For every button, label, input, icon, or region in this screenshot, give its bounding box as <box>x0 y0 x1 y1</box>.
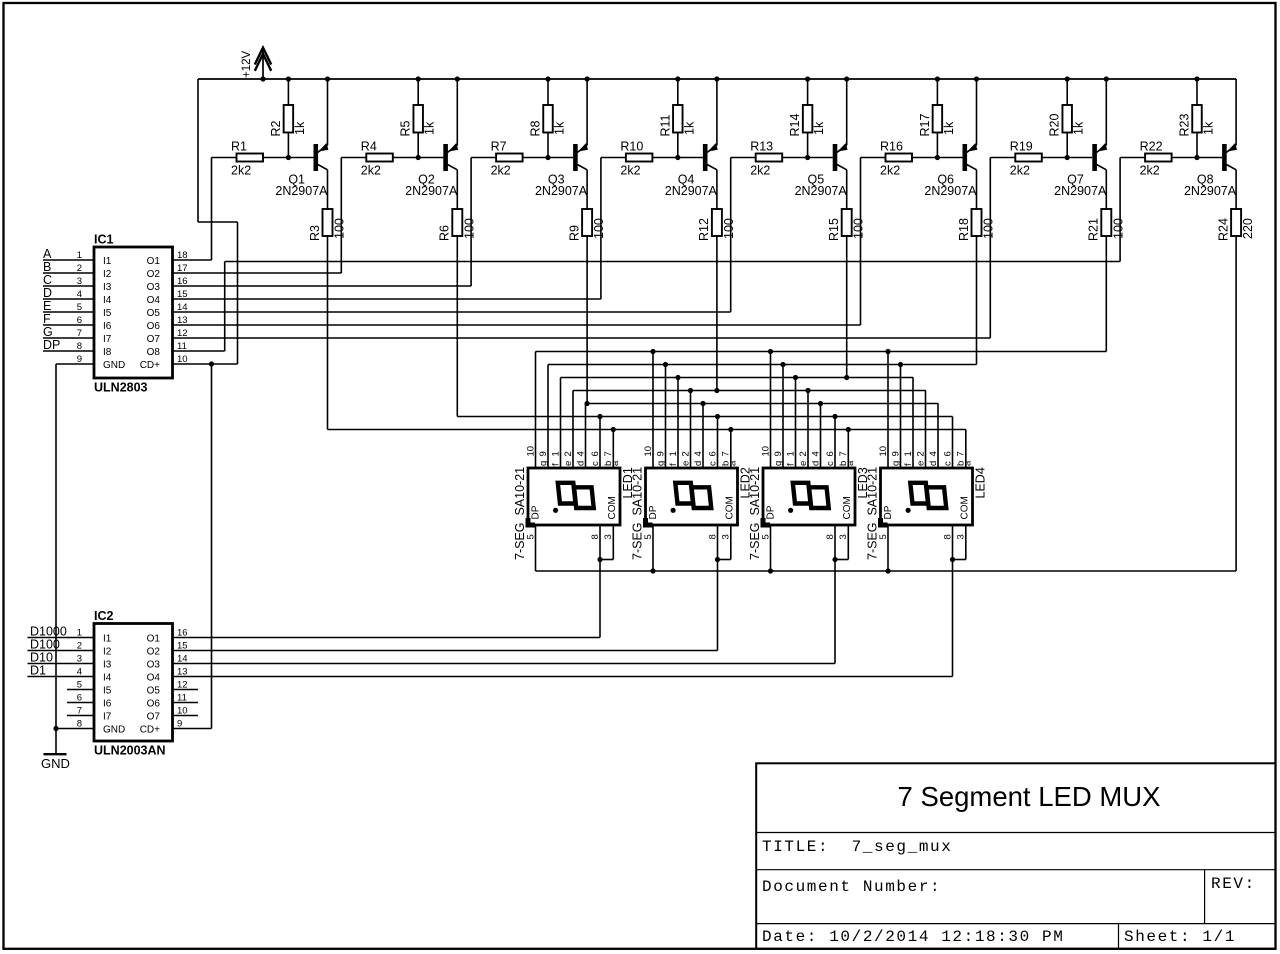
resistor R17 (1k pull-up) <box>918 105 956 137</box>
svg-text:ULN2803: ULN2803 <box>94 381 148 395</box>
svg-text:R21: R21 <box>1087 218 1101 241</box>
junction: base node R13/R14/Q5 <box>805 155 810 160</box>
svg-text:O1: O1 <box>147 256 161 267</box>
svg-text:R7: R7 <box>491 140 507 154</box>
svg-text:f: f <box>903 463 914 466</box>
svg-text:R17: R17 <box>918 114 932 137</box>
junction: rail / R8 <box>545 76 550 81</box>
svg-text:e: e <box>563 461 574 466</box>
wire: IC1 O7 net to R19 (base drive) <box>173 158 1016 339</box>
wire: rail to R5 <box>417 79 419 105</box>
svg-text:9: 9 <box>655 451 666 456</box>
svg-text:O4: O4 <box>147 673 161 684</box>
svg-text:14: 14 <box>177 654 188 665</box>
svg-text:O2: O2 <box>147 269 161 280</box>
svg-text:100: 100 <box>333 218 347 239</box>
svg-text:8: 8 <box>590 534 601 539</box>
svg-text:R5: R5 <box>399 120 413 136</box>
svg-text:2k2: 2k2 <box>491 164 511 178</box>
svg-text:R13: R13 <box>750 140 773 154</box>
svg-text:d: d <box>810 461 821 466</box>
svg-text:a: a <box>727 460 738 466</box>
svg-text:F: F <box>43 312 51 326</box>
wire: LED2 COM pins join <box>715 525 731 562</box>
svg-text:2k2: 2k2 <box>1140 164 1160 178</box>
svg-text:220: 220 <box>1241 218 1255 239</box>
node C (segment input) <box>43 273 94 287</box>
resistor R1 (2k2) <box>231 140 263 178</box>
svg-text:I7: I7 <box>103 712 112 723</box>
svg-text:I1: I1 <box>103 256 112 267</box>
svg-text:7 Segment LED MUX: 7 Segment LED MUX <box>898 781 1161 812</box>
wire: R17 to base node <box>936 133 938 158</box>
svg-text:7: 7 <box>603 451 614 456</box>
svg-text:Date: 10/2/2014 12:18:30 PM: Date: 10/2/2014 12:18:30 PM <box>762 928 1064 946</box>
svg-text:COM: COM <box>842 496 853 519</box>
svg-text:I4: I4 <box>103 673 112 684</box>
wire: base node to Q2 <box>393 157 444 159</box>
svg-text:2k2: 2k2 <box>750 164 770 178</box>
wire: R14 to base node <box>807 133 809 158</box>
junction: rail / R5 <box>416 76 421 81</box>
wire: rail to R23 <box>1196 79 1198 105</box>
svg-text:13: 13 <box>177 315 188 326</box>
wire: base node to Q6 <box>912 157 963 159</box>
svg-text:R23: R23 <box>1178 114 1192 137</box>
junction: rail / R20 <box>1065 76 1070 81</box>
resistor R2 (1k pull-up) <box>269 105 307 137</box>
svg-text:d: d <box>693 461 704 466</box>
wire: LED4 COM to IC2 O4 <box>173 560 953 677</box>
node DP (segment input) <box>43 338 94 352</box>
svg-text:16: 16 <box>177 276 188 287</box>
wire: rail to R2 <box>287 79 289 105</box>
resistor R18 (100) <box>957 172 996 242</box>
node E (segment input) <box>43 299 94 313</box>
svg-text:100: 100 <box>592 218 606 239</box>
resistor R24 (220) <box>1216 172 1255 242</box>
svg-text:100: 100 <box>462 218 476 239</box>
svg-text:O5: O5 <box>147 308 161 319</box>
svg-text:8: 8 <box>825 534 836 539</box>
svg-text:7-SEG SA10-21: 7-SEG SA10-21 <box>748 467 762 560</box>
wire: segment bus G <box>536 349 1107 354</box>
node D100 (digit select input) <box>28 638 95 652</box>
svg-text:8: 8 <box>707 534 718 539</box>
svg-text:100: 100 <box>982 218 996 239</box>
junction: base node R4/R5/Q2 <box>416 155 421 160</box>
svg-text:GND: GND <box>103 725 125 736</box>
svg-text:A: A <box>43 247 52 261</box>
resistor R19 (2k2) <box>1010 140 1042 178</box>
wire: IC2 unconnected input stubs pins 5-7 <box>67 690 94 716</box>
wire: Q4 collector to segment bus D <box>716 236 718 391</box>
svg-text:g: g <box>773 461 784 466</box>
svg-text:1k: 1k <box>682 121 696 135</box>
resistor R12 (100) <box>697 172 736 242</box>
wire: LED3 COM to IC2 O3 <box>173 560 836 664</box>
svg-text:10: 10 <box>878 446 889 457</box>
svg-text:9: 9 <box>773 451 784 456</box>
svg-text:6: 6 <box>942 451 953 456</box>
svg-text:CD+: CD+ <box>140 725 160 736</box>
svg-text:2N2907A: 2N2907A <box>665 184 718 198</box>
svg-text:E: E <box>43 299 51 313</box>
svg-text:e: e <box>915 461 926 466</box>
transistor Q1 2N2907A (PNP) <box>275 79 328 198</box>
wire: R11 to base node <box>677 133 679 158</box>
transistor Q8 2N2907A (PNP) <box>1184 79 1237 198</box>
junction: rail / Q1 emitter <box>325 76 330 81</box>
svg-text:d: d <box>928 461 939 466</box>
wire: segment bus B <box>457 414 952 419</box>
wire: IC1 O1 net to R1 (base drive) <box>173 158 237 261</box>
svg-text:I3: I3 <box>103 282 112 293</box>
svg-text:17: 17 <box>177 263 188 274</box>
wire: rail to R11 <box>677 79 679 105</box>
svg-text:O7: O7 <box>147 712 161 723</box>
svg-text:9: 9 <box>177 719 182 730</box>
svg-text:1: 1 <box>903 451 914 456</box>
resistor R15 (100) <box>827 172 866 242</box>
junction: rail / R23 <box>1194 76 1199 81</box>
svg-text:7: 7 <box>838 451 849 456</box>
svg-text:R16: R16 <box>880 140 903 154</box>
svg-text:Sheet: 1/1: Sheet: 1/1 <box>1124 928 1236 946</box>
svg-text:R3: R3 <box>308 225 322 241</box>
junction: base node R7/R8/Q3 <box>545 155 550 160</box>
svg-text:3: 3 <box>956 534 967 539</box>
svg-text:c: c <box>707 461 718 466</box>
IC IC2 ULN2003AN (digit driver) <box>77 609 188 758</box>
junction: base node R16/R17/Q6 <box>935 155 940 160</box>
svg-text:1k: 1k <box>1072 121 1086 135</box>
svg-text:TITLE: 7_seg_mux: TITLE: 7_seg_mux <box>762 838 952 856</box>
svg-text:C: C <box>43 273 52 287</box>
junction: rail / +12V symbol <box>260 76 265 81</box>
svg-text:7: 7 <box>956 451 967 456</box>
svg-text:1k: 1k <box>812 121 826 135</box>
svg-text:e: e <box>798 461 809 466</box>
wire: Q5 collector to segment bus E <box>846 236 848 378</box>
svg-text:1: 1 <box>785 451 796 456</box>
svg-text:R11: R11 <box>658 114 672 136</box>
node B (segment input) <box>43 260 94 274</box>
svg-text:I1: I1 <box>103 634 112 645</box>
svg-text:15: 15 <box>177 641 188 652</box>
transistor Q6 2N2907A (PNP) <box>924 79 977 198</box>
svg-text:a: a <box>610 460 621 466</box>
resistor R23 (1k pull-up) <box>1178 105 1216 137</box>
svg-text:I7: I7 <box>103 334 112 345</box>
svg-text:I5: I5 <box>103 686 112 697</box>
svg-text:7: 7 <box>721 451 732 456</box>
wire: LED2 DP pin stub <box>652 525 654 571</box>
junction: base node R19/R20/Q7 <box>1065 155 1070 160</box>
resistor R8 (1k pull-up) <box>529 105 567 137</box>
wire: segment bus F <box>548 362 977 367</box>
svg-text:10: 10 <box>525 446 536 457</box>
svg-text:7-SEG SA10-21: 7-SEG SA10-21 <box>866 467 880 560</box>
wire: segment bus A <box>328 427 966 432</box>
svg-text:4: 4 <box>810 451 821 456</box>
resistor R4 (2k2) <box>361 140 393 178</box>
junction: base node R1/R2/Q1 <box>286 155 291 160</box>
svg-text:GND: GND <box>41 756 70 771</box>
svg-text:7-SEG SA10-21: 7-SEG SA10-21 <box>513 467 527 560</box>
svg-text:f: f <box>785 463 796 466</box>
svg-text:DP: DP <box>648 505 659 519</box>
svg-text:GND: GND <box>103 360 125 371</box>
svg-text:c: c <box>942 461 953 466</box>
svg-text:R1: R1 <box>231 140 247 154</box>
svg-text:g: g <box>890 461 901 466</box>
junction: rail / R14 <box>805 76 810 81</box>
svg-text:100: 100 <box>852 218 866 239</box>
svg-text:I2: I2 <box>103 647 112 658</box>
7-segment display LED3 (SA10-21) <box>748 446 870 560</box>
svg-text:9: 9 <box>890 451 901 456</box>
svg-text:10: 10 <box>760 446 771 457</box>
svg-text:2: 2 <box>563 451 574 456</box>
transistor Q4 2N2907A (PNP) <box>665 79 718 198</box>
svg-text:B: B <box>43 260 51 274</box>
svg-text:R10: R10 <box>620 140 643 154</box>
wire: +12V drop to IC2 CD+ <box>173 364 212 729</box>
svg-text:12: 12 <box>177 328 188 339</box>
svg-text:1: 1 <box>550 451 561 456</box>
wire: Q3 collector to segment bus C <box>586 236 588 404</box>
svg-text:2: 2 <box>915 451 926 456</box>
svg-text:I6: I6 <box>103 321 112 332</box>
svg-text:2N2907A: 2N2907A <box>1184 184 1237 198</box>
svg-text:2N2907A: 2N2907A <box>924 184 977 198</box>
svg-text:COM: COM <box>607 496 618 519</box>
wire: base node to Q5 <box>782 157 833 159</box>
wire: base node to Q8 <box>1172 157 1223 159</box>
wire: base node to Q7 <box>1042 157 1093 159</box>
junction: base node R10/R11/Q4 <box>675 155 680 160</box>
svg-text:+12V: +12V <box>241 50 253 78</box>
junction: rail / R2 <box>286 76 291 81</box>
wire: R8 to base node <box>547 133 549 158</box>
wire: rail to R8 <box>547 79 549 105</box>
junction: rail / Q7 emitter <box>1104 76 1109 81</box>
wire: rail to R20 <box>1066 79 1068 105</box>
junction: rail / Q5 emitter <box>844 76 849 81</box>
svg-text:O8: O8 <box>147 347 161 358</box>
svg-text:2N2907A: 2N2907A <box>535 184 588 198</box>
wire: IC1 O5 net to R13 (base drive) <box>173 158 756 313</box>
svg-text:f: f <box>550 463 561 466</box>
svg-text:4: 4 <box>928 451 939 456</box>
svg-text:O3: O3 <box>147 660 161 671</box>
junction: DP bus taps <box>650 568 890 573</box>
svg-text:a: a <box>962 460 973 466</box>
resistor R7 (2k2) <box>491 140 523 178</box>
transistor Q2 2N2907A (PNP) <box>405 79 458 198</box>
svg-text:D100: D100 <box>30 638 60 652</box>
svg-text:11: 11 <box>177 341 187 352</box>
svg-text:I4: I4 <box>103 295 112 306</box>
wire: Q6 collector to segment bus F <box>976 236 978 365</box>
wire: LED1 segment pin stubs <box>536 352 614 469</box>
junction: rail / Q4 emitter <box>714 76 719 81</box>
resistor R20 (1k pull-up) <box>1048 105 1086 137</box>
wire: Q7 collector to segment bus G <box>1105 236 1107 352</box>
svg-text:1k: 1k <box>553 121 567 135</box>
wire: base node to Q1 <box>263 157 314 159</box>
wire: R2 to base node <box>287 133 289 158</box>
junction: rail / R17 <box>935 76 940 81</box>
svg-text:4: 4 <box>575 451 586 456</box>
resistor R6 (100) <box>438 172 477 242</box>
svg-text:8: 8 <box>942 534 953 539</box>
svg-text:3: 3 <box>721 534 732 539</box>
svg-text:DP: DP <box>43 338 60 352</box>
transistor Q3 2N2907A (PNP) <box>535 79 588 198</box>
wire: IC1 O2 net to R4 (base drive) <box>173 158 367 274</box>
svg-text:18: 18 <box>177 250 188 261</box>
wire: LED3 COM pins join <box>832 525 848 562</box>
svg-text:COM: COM <box>960 496 971 519</box>
junction: rail / Q6 emitter <box>974 76 979 81</box>
svg-text:3: 3 <box>603 534 614 539</box>
svg-text:1k: 1k <box>1202 121 1216 135</box>
wire: LED1 COM pins join <box>597 525 613 562</box>
svg-text:I6: I6 <box>103 699 112 710</box>
wire: IC1 O4 net to R10 (base drive) <box>173 158 626 300</box>
junction: rail / R11 <box>675 76 680 81</box>
svg-text:100: 100 <box>722 218 736 239</box>
svg-text:ULN2003AN: ULN2003AN <box>94 744 166 758</box>
wire: IC2 pin 8 GND <box>56 728 94 730</box>
svg-text:O1: O1 <box>147 634 161 645</box>
resistor R11 (1k pull-up) <box>658 105 696 137</box>
svg-text:16: 16 <box>177 628 188 639</box>
wire: base node to Q4 <box>652 157 703 159</box>
svg-text:6: 6 <box>590 451 601 456</box>
svg-text:14: 14 <box>177 302 188 313</box>
svg-text:R22: R22 <box>1140 140 1163 154</box>
resistor R5 (1k pull-up) <box>399 105 437 137</box>
svg-text:D1000: D1000 <box>30 625 67 639</box>
svg-text:1k: 1k <box>293 121 307 135</box>
transistor Q5 2N2907A (PNP) <box>795 79 848 198</box>
IC IC1 ULN2803 (octal darlington) <box>77 233 188 395</box>
svg-text:2: 2 <box>680 451 691 456</box>
svg-text:2: 2 <box>798 451 809 456</box>
svg-text:d: d <box>575 461 586 466</box>
power rail +12V wire <box>198 78 1236 80</box>
svg-text:R4: R4 <box>361 140 377 154</box>
svg-text:10: 10 <box>643 446 654 457</box>
svg-text:O3: O3 <box>147 282 161 293</box>
transistor Q7 2N2907A (PNP) <box>1054 79 1107 198</box>
junction: CD+ / +12V drop to IC2 <box>209 361 214 366</box>
wire: IC1 O3 net to R7 (base drive) <box>173 158 497 287</box>
svg-text:I8: I8 <box>103 347 112 358</box>
svg-text:R9: R9 <box>567 225 581 241</box>
svg-text:I3: I3 <box>103 660 112 671</box>
7-segment display LED1 (SA10-21) <box>513 446 635 560</box>
wire: LED4 COM pins join <box>950 525 966 562</box>
wire: R20 to base node <box>1066 133 1068 158</box>
svg-text:2N2907A: 2N2907A <box>275 184 328 198</box>
wire: LED2 COM to IC2 O2 <box>173 560 718 651</box>
wire: IC1 CD+ row <box>173 363 238 365</box>
svg-text:f: f <box>668 463 679 466</box>
svg-text:IC2: IC2 <box>94 609 114 623</box>
wire: LED3 DP pin stub <box>770 525 772 571</box>
svg-text:g: g <box>655 461 666 466</box>
svg-text:I5: I5 <box>103 308 112 319</box>
svg-text:a: a <box>845 460 856 466</box>
svg-text:R19: R19 <box>1010 140 1033 154</box>
wire: rail to R17 <box>936 79 938 105</box>
junction: base node R22/R23/Q8 <box>1194 155 1199 160</box>
svg-text:1: 1 <box>668 451 679 456</box>
wire: LED4 DP pin stub <box>887 525 889 571</box>
svg-text:D: D <box>43 286 52 300</box>
svg-text:R8: R8 <box>529 120 543 136</box>
svg-text:2k2: 2k2 <box>1010 164 1030 178</box>
svg-text:2N2907A: 2N2907A <box>795 184 848 198</box>
svg-text:2k2: 2k2 <box>361 164 381 178</box>
svg-text:O7: O7 <box>147 334 161 345</box>
resistor R22 (2k2) <box>1140 140 1172 178</box>
wire: R23 to base node <box>1196 133 1198 158</box>
svg-text:DP: DP <box>883 505 894 519</box>
wire: Q8 collector to DP bus <box>536 236 1237 571</box>
node D10 (digit select input) <box>28 651 95 665</box>
svg-text:O4: O4 <box>147 295 161 306</box>
wire: IC1 pin 9 GND to ground <box>56 364 94 754</box>
7-segment display LED2 (SA10-21) <box>631 446 753 560</box>
svg-text:DP: DP <box>531 505 542 519</box>
svg-text:R20: R20 <box>1048 114 1062 137</box>
svg-text:g: g <box>538 461 549 466</box>
wire: IC1 O8 net to R22 (base drive) <box>173 158 1146 352</box>
resistor R21 (100) <box>1087 172 1126 242</box>
7-segment display LED4 (SA10-21) <box>866 446 988 560</box>
svg-text:R24: R24 <box>1216 218 1230 241</box>
svg-text:I2: I2 <box>103 269 112 280</box>
svg-text:G: G <box>43 325 53 339</box>
wire: rail to R14 <box>807 79 809 105</box>
svg-text:3: 3 <box>838 534 849 539</box>
junction: rail / Q2 emitter <box>455 76 460 81</box>
title block <box>756 763 1275 949</box>
svg-text:e: e <box>680 461 691 466</box>
wire: IC2 unconnected output stubs pins 10-12 <box>173 690 199 716</box>
svg-text:2k2: 2k2 <box>231 164 251 178</box>
node D1000 (digit select input) <box>28 625 95 639</box>
svg-text:O6: O6 <box>147 699 161 710</box>
svg-text:4: 4 <box>693 451 704 456</box>
ground symbol GND <box>41 754 70 771</box>
svg-text:O5: O5 <box>147 686 161 697</box>
junction: GND net at IC2 pin 8 <box>53 726 58 731</box>
svg-text:IC1: IC1 <box>94 233 114 247</box>
svg-text:6: 6 <box>825 451 836 456</box>
resistor R3 (100) <box>308 172 347 242</box>
svg-text:REV:: REV: <box>1211 875 1256 893</box>
svg-text:2N2907A: 2N2907A <box>405 184 458 198</box>
node F (segment input) <box>43 312 94 326</box>
svg-text:D10: D10 <box>30 651 53 665</box>
junction: rail / Q3 emitter <box>585 76 590 81</box>
